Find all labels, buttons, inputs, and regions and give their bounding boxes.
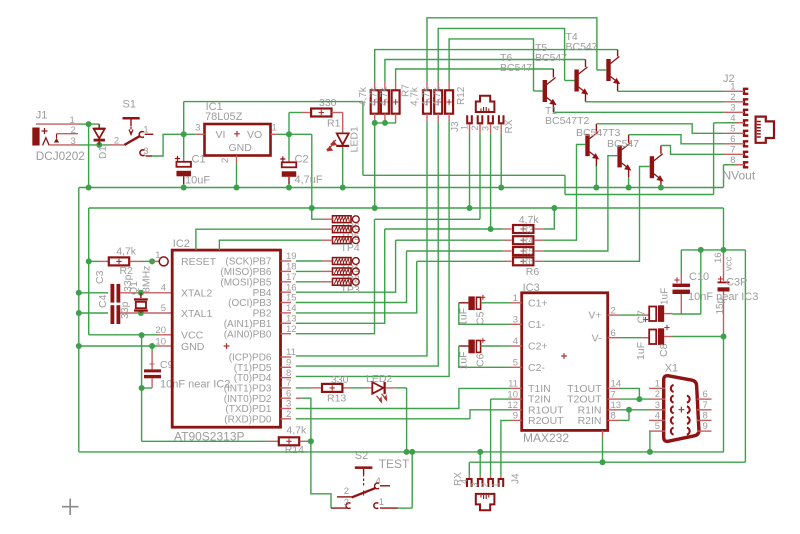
- svg-text:R14: R14: [285, 444, 304, 456]
- wire R1IN to X1 pin3: [619, 409, 649, 411]
- svg-text:1: 1: [379, 497, 384, 508]
- svg-text:(AIN1)PB1: (AIN1)PB1: [224, 319, 272, 330]
- wire C8 to right riser: [673, 336, 724, 338]
- junction dots group1: [372, 120, 378, 126]
- pullup resistor at x=395.6: [395, 81, 397, 90]
- wire TP6 feed from +5V rail: [312, 208, 322, 219]
- svg-text:8: 8: [611, 411, 616, 422]
- wire PB1 row13: [296, 229, 385, 323]
- svg-text:3: 3: [71, 136, 76, 147]
- svg-text:R1: R1: [327, 118, 341, 130]
- J4 pin 1 bracket: [499, 479, 504, 487]
- svg-text:LED2: LED2: [366, 373, 392, 385]
- svg-text:6: 6: [703, 389, 708, 400]
- wire PB7 to TP1: [296, 260, 322, 262]
- svg-text:4: 4: [655, 410, 660, 421]
- IC1 pin 1 stub: [271, 133, 279, 135]
- svg-text:78L05Z: 78L05Z: [205, 111, 243, 123]
- X1 pin 2: [649, 398, 665, 400]
- svg-text:XTAL2: XTAL2: [181, 288, 212, 300]
- IC3 MAX232 box: [522, 293, 608, 431]
- wire J3 pin4 to gnd rail: [500, 134, 502, 188]
- svg-text:BC547: BC547: [607, 138, 639, 150]
- svg-text:X1: X1: [665, 363, 678, 375]
- svg-text:2: 2: [71, 125, 76, 136]
- test point TP4: [333, 237, 352, 244]
- S2 pin2 line: [337, 496, 352, 498]
- wire LED1 to rail: [342, 147, 344, 188]
- svg-text:5: 5: [655, 421, 660, 432]
- svg-text:TP4: TP4: [341, 242, 360, 254]
- svg-text:10uF: 10uF: [185, 175, 210, 187]
- svg-text:(OCI)PB3: (OCI)PB3: [228, 298, 272, 309]
- wire T1b collector to J2 pin7: [661, 146, 724, 155]
- pullup resistor at x=374.7: [374, 81, 376, 90]
- wire C7 to V+ riser: [673, 313, 701, 315]
- capacitor C6: [468, 340, 474, 354]
- wire T2OUT to X1 pin2: [619, 398, 649, 400]
- svg-text:GND: GND: [229, 142, 253, 154]
- X1 pin 5: [649, 430, 665, 432]
- voltage regulator IC1 box: [205, 124, 271, 156]
- J2 pin 5: [744, 131, 748, 136]
- X1 pin 8: [697, 419, 712, 421]
- wire MAX232 GND pin15 drop: [602, 430, 604, 438]
- svg-text:2: 2: [470, 125, 480, 130]
- wire J3 pin2 down: [479, 134, 481, 220]
- junction dot R1IN: [626, 407, 632, 413]
- svg-text:6: 6: [730, 134, 735, 145]
- svg-text:RESET: RESET: [181, 256, 217, 268]
- svg-text:RX: RX: [504, 119, 515, 133]
- junction dot MAX GND: [600, 459, 606, 465]
- svg-text:1: 1: [513, 293, 518, 304]
- svg-text:2: 2: [344, 486, 349, 497]
- wire VCC feed: [89, 334, 158, 336]
- junction dot VO on +5V rail: [309, 205, 315, 211]
- J3 pin 4 bracket: [499, 115, 504, 123]
- svg-text:R6: R6: [526, 266, 540, 278]
- wire J3 pin1 to +5V rail: [469, 134, 471, 208]
- LED1: [342, 113, 344, 134]
- junction dot C1 top: [181, 131, 187, 137]
- IC3 pin C2-: [511, 366, 522, 368]
- wire GND pin line: [79, 345, 158, 347]
- J2 pin 8: [744, 162, 748, 167]
- wire PD0 row2 RXD: [296, 418, 470, 420]
- svg-text:2: 2: [655, 389, 660, 400]
- svg-text:10nF near IC2: 10nF near IC2: [160, 379, 230, 391]
- wire R1OUT jog: [470, 410, 511, 419]
- resistor R4: [503, 239, 512, 241]
- svg-text:16: 16: [713, 252, 724, 263]
- wire TP4 feed: [219, 240, 322, 250]
- wire J4 pin4 / MAX GND line y=462.2: [469, 461, 745, 463]
- wire PB0 row12 to J3p2 line: [296, 219, 375, 333]
- svg-text:C2: C2: [295, 154, 309, 166]
- svg-text:(MOSI)PB5: (MOSI)PB5: [220, 277, 272, 288]
- svg-text:TEST: TEST: [379, 457, 410, 471]
- J1 pin 3 line: [49, 144, 79, 146]
- svg-text:12: 12: [286, 324, 297, 335]
- T4 collector stub: [617, 50, 619, 57]
- svg-text:(MISO)PB6: (MISO)PB6: [220, 267, 272, 278]
- IC3 pin R1IN: [608, 409, 619, 411]
- X1 pin 7: [697, 409, 712, 411]
- junction dot on ground rail at x88.6: [86, 185, 92, 191]
- wire down x565: [564, 175, 566, 194]
- transistor T3: [617, 145, 621, 167]
- ground rail y=187.5: [79, 187, 724, 189]
- svg-text:3: 3: [655, 400, 660, 411]
- S2 pin4 contact: [375, 483, 379, 489]
- svg-text:4: 4: [513, 336, 518, 347]
- svg-text:C10: C10: [689, 271, 709, 283]
- junction dot C1 bottom rail: [181, 185, 187, 191]
- wire R3 left: [385, 228, 503, 230]
- wire R1 left: [289, 112, 302, 114]
- svg-text:4,7k: 4,7k: [358, 86, 369, 106]
- wire PB6 to TP2: [296, 270, 322, 272]
- junction dot 723.5: [721, 247, 727, 253]
- resistor R2 4.7k: [89, 260, 99, 262]
- wire T2IN to J4 pin2: [491, 398, 511, 400]
- capacitor C1: [183, 134, 185, 157]
- IC3 pin T2OUT: [608, 398, 619, 400]
- svg-text:XTAL1: XTAL1: [181, 308, 212, 320]
- junction dot S2 riser: [409, 449, 415, 455]
- svg-text:IC3: IC3: [523, 282, 540, 294]
- junction dot R14 right: [308, 438, 314, 444]
- svg-text:D1: D1: [98, 146, 109, 159]
- IC3 pin R2OUT: [511, 419, 522, 421]
- gnd distribution line y=451.9: [79, 451, 724, 453]
- junction dot IC1 GND rail: [234, 185, 240, 191]
- svg-text:C8: C8: [658, 343, 670, 357]
- wire C5 left loop: [459, 303, 511, 325]
- wire V+ riser: [700, 250, 702, 314]
- wire R14 to S2 pin3: [311, 441, 331, 508]
- svg-text:2: 2: [480, 482, 490, 487]
- switch S1 actuator: [123, 117, 140, 120]
- svg-text:2: 2: [286, 409, 291, 420]
- wire net VIN pin1 to diode: [79, 123, 99, 125]
- junction dot X1 pin5: [647, 449, 653, 455]
- wire IC1 GND to rail: [236, 163, 238, 188]
- svg-text:BC547T2: BC547T2: [545, 115, 590, 127]
- svg-text:3: 3: [143, 146, 148, 157]
- svg-text:R5: R5: [522, 246, 534, 256]
- wire J3 pin3 vertical: [490, 134, 492, 229]
- wire R4 left: [396, 239, 503, 241]
- wire J4 pin3 from gnd distribution: [479, 452, 481, 475]
- wire R4 right to T2 base: [544, 144, 586, 240]
- IC1 pin 3 stub: [195, 133, 205, 135]
- svg-text:20: 20: [155, 325, 166, 336]
- svg-text:C1-: C1-: [528, 319, 545, 331]
- J2 pin 4: [744, 120, 748, 125]
- resistor R6: [503, 260, 512, 262]
- svg-text:1uF: 1uF: [458, 351, 470, 369]
- J4 pin 3 bracket: [478, 479, 483, 487]
- X1 pin 9: [697, 430, 712, 432]
- wire VO net: [278, 133, 312, 135]
- wire X1 pin5 to gnd line: [649, 431, 651, 452]
- junction dot diode bottom: [96, 142, 102, 148]
- wire VCC vertical to R14 line: [141, 335, 143, 441]
- svg-text:PB2: PB2: [253, 309, 272, 320]
- wire J2p4 riser: [713, 123, 715, 195]
- resistor R1: [302, 112, 311, 114]
- svg-text:1: 1: [655, 378, 660, 389]
- +5V rail y=208: [89, 207, 724, 209]
- svg-text:3: 3: [344, 498, 349, 509]
- resistor R5: [503, 250, 512, 252]
- svg-text:C5: C5: [475, 311, 487, 325]
- S1 arm pin2: [109, 144, 124, 146]
- svg-text:4: 4: [459, 479, 469, 484]
- svg-text:2: 2: [114, 136, 119, 147]
- IC3 pin C1+: [511, 302, 522, 304]
- connector J3 jack symbol: [476, 96, 495, 112]
- svg-text:4: 4: [376, 476, 381, 487]
- svg-text:DCJ0202: DCJ0202: [36, 149, 85, 163]
- svg-text:J4: J4: [511, 473, 522, 484]
- svg-text:GND: GND: [181, 341, 205, 353]
- capacitor C3P: [723, 250, 725, 254]
- J2 pin4 stub to riser: [714, 122, 736, 124]
- svg-text:4,7k: 4,7k: [410, 86, 421, 106]
- wire PD5 row9: [296, 122, 438, 366]
- wire LED2 drop: [406, 388, 408, 452]
- svg-text:4,7k: 4,7k: [421, 86, 432, 106]
- wires group1 resistor tops to collector rails: [375, 50, 618, 81]
- J2 pin 7: [744, 152, 748, 157]
- J1 plug symbol detail: [42, 128, 48, 134]
- svg-text:MAX232: MAX232: [523, 431, 569, 445]
- wire y194.5 to J2 pin4 riser: [565, 194, 714, 196]
- svg-text:4,7k: 4,7k: [379, 86, 390, 106]
- J2 pin 3: [744, 110, 748, 115]
- J3 pin 2 bracket: [478, 115, 483, 123]
- svg-text:9: 9: [513, 411, 518, 422]
- wire R13 to LED2: [351, 387, 365, 389]
- svg-text:3: 3: [513, 315, 518, 326]
- J4 pin 4 bracket: [467, 479, 472, 487]
- svg-text:3: 3: [470, 482, 480, 487]
- svg-text:R12: R12: [456, 86, 467, 105]
- svg-text:4,7k: 4,7k: [432, 86, 443, 106]
- svg-text:9: 9: [703, 421, 708, 432]
- capacitor C5: [468, 296, 474, 310]
- svg-text:R2IN: R2IN: [578, 415, 602, 427]
- svg-text:7: 7: [730, 144, 735, 155]
- junction dot T3 emitter: [626, 185, 632, 191]
- svg-text:19: 19: [286, 251, 297, 262]
- wire R3 right pullup: [544, 208, 555, 229]
- T4 emitter wire: [617, 84, 619, 92]
- IC3 origin cross: [561, 353, 567, 359]
- svg-text:12: 12: [507, 400, 518, 411]
- junction dot LED2 drop: [404, 449, 410, 455]
- svg-text:R13: R13: [327, 393, 346, 405]
- J1 pin 1 line: [36, 123, 79, 125]
- svg-text:(RXD)PD0: (RXD)PD0: [224, 414, 272, 425]
- svg-text:15: 15: [286, 293, 297, 304]
- svg-text:330: 330: [331, 374, 349, 386]
- wires group2 resistor tops to base rails: [427, 18, 597, 81]
- S2 pin3 contact: [346, 503, 350, 509]
- resistor R3: [503, 228, 512, 230]
- svg-text:IC2: IC2: [173, 238, 190, 250]
- svg-text:3: 3: [730, 102, 735, 113]
- svg-text:BC547: BC547: [500, 62, 532, 74]
- wire C6 left loop: [459, 346, 511, 367]
- junction dot C2 bottom rail: [286, 185, 292, 191]
- capacitor C2: [288, 160, 290, 162]
- T6 base wire jog: [534, 90, 543, 92]
- S2 actuator: [355, 466, 373, 469]
- svg-text:6: 6: [611, 328, 616, 339]
- IC2 right pin stubs PD: [281, 356, 292, 358]
- svg-text:C7: C7: [636, 310, 648, 324]
- svg-text:330: 330: [319, 97, 337, 109]
- S2 pin1 line: [380, 507, 398, 509]
- base resistor at x=438.2: [437, 81, 439, 90]
- svg-text:V+: V+: [588, 310, 601, 322]
- wire J3 pin2 line y=219.3: [375, 218, 481, 220]
- +5V link line y=249.9: [681, 249, 745, 251]
- T1b collector stub: [660, 146, 662, 154]
- svg-text:14: 14: [286, 303, 297, 314]
- svg-text:5: 5: [513, 358, 518, 369]
- T3 emitter: [628, 170, 630, 177]
- junction dot C9 top: [149, 343, 155, 349]
- junction dot VCC line: [139, 332, 145, 338]
- svg-text:4: 4: [492, 125, 502, 130]
- T5 collector stub: [585, 60, 587, 68]
- junction dot RESET: [149, 258, 155, 264]
- svg-text:3: 3: [195, 123, 200, 134]
- resistor R14 4.7k: [267, 440, 278, 442]
- X1 pin 4: [649, 419, 665, 421]
- junction dot T1OUT/T2OUT/X1p2: [636, 396, 642, 402]
- svg-text:4: 4: [161, 282, 166, 293]
- LED2: [365, 387, 372, 389]
- junction dot 700.8: [698, 247, 704, 253]
- T5 emitter wire: [585, 94, 587, 102]
- wire J4 pin4 from gnd line: [468, 462, 470, 475]
- IC3 pin T2IN: [511, 398, 522, 400]
- svg-text:18: 18: [286, 262, 297, 273]
- X1 pin 1: [649, 387, 665, 389]
- svg-text:J1: J1: [36, 110, 48, 122]
- S2 arm: [352, 488, 376, 498]
- svg-text:1uF: 1uF: [635, 342, 647, 360]
- junction dot VIN: [86, 121, 92, 127]
- wire PB4 row16: [296, 240, 396, 292]
- junction dot VO-R1: [286, 131, 292, 137]
- svg-text:BC547: BC547: [535, 52, 567, 64]
- svg-text:4,7k: 4,7k: [286, 425, 307, 437]
- svg-text:C2-: C2-: [528, 362, 545, 374]
- J3 pin 3 bracket: [488, 115, 493, 123]
- wire R5 right to T3 base: [544, 156, 618, 251]
- junction dot LED1 rail: [340, 185, 346, 191]
- crystal Q1: [140, 293, 142, 298]
- svg-text:10nF near IC3: 10nF near IC3: [688, 291, 758, 303]
- T3 collector stub: [628, 135, 630, 143]
- T5 base wire jog: [565, 80, 575, 82]
- J2 pin 6: [744, 141, 748, 146]
- svg-text:C2+: C2+: [528, 341, 548, 353]
- test point TP3: [333, 278, 352, 285]
- J2 pin 2: [744, 99, 748, 104]
- svg-text:C1+: C1+: [528, 297, 548, 309]
- left ground rail x=78.8: [78, 188, 80, 452]
- wire R2OUT drop to J4 pin1: [501, 420, 511, 475]
- T2 emitter: [595, 159, 597, 166]
- svg-text:VCC: VCC: [181, 330, 204, 342]
- connector J4 jack symbol: [476, 494, 495, 510]
- svg-text:vcc: vcc: [724, 257, 735, 272]
- svg-text:V-: V-: [592, 332, 602, 344]
- svg-text:1: 1: [272, 123, 277, 134]
- S1 pin 1 contact: [139, 132, 144, 138]
- IC1 pin 2 GND stub: [236, 156, 238, 164]
- wire VIN down to ground rail: [88, 124, 90, 187]
- svg-text:10: 10: [155, 336, 166, 347]
- wire T4 emitter to J2 pin1: [618, 90, 724, 92]
- junction dot R3 pullup: [551, 205, 557, 211]
- svg-text:C3P: C3P: [726, 277, 747, 289]
- base resistor at x=427: [426, 81, 428, 90]
- wire J1 pin3 to S1: [79, 144, 109, 146]
- T1b emitter: [660, 181, 662, 188]
- junction dot C9 bottom: [139, 385, 145, 391]
- IC2 right pin stubs PB: [281, 260, 292, 262]
- wire R1IN tie to R2IN: [628, 410, 630, 421]
- transistor T6: [543, 80, 547, 102]
- J1 pin 2 line: [57, 133, 78, 135]
- svg-text:J2: J2: [723, 73, 735, 85]
- T4 base wire jog: [597, 69, 606, 71]
- connector J2 jack symbol: [756, 117, 774, 143]
- svg-text:1: 1: [155, 250, 160, 261]
- wire PD2 row6 to R14: [296, 397, 301, 399]
- X1 origin cross: [679, 407, 685, 413]
- svg-text:BC547: BC547: [566, 41, 598, 53]
- test point TP6: [333, 216, 352, 223]
- transistor T1 bottom right: [650, 156, 654, 178]
- wire T1OUT jog down: [619, 388, 639, 399]
- IC3 pin T1IN: [511, 387, 522, 389]
- junction dot J3p1: [467, 205, 473, 211]
- wire R6 left: [417, 260, 503, 262]
- wire C9 bottom jog: [142, 387, 153, 389]
- wire R1 riser and C2 riser: [288, 113, 290, 161]
- transistor T4: [606, 59, 610, 81]
- junction dot Q1 bottom: [138, 310, 144, 316]
- IC2 pin1 inversion bubble: [159, 257, 168, 266]
- frame cross mark: [62, 499, 79, 516]
- wire right loop riser x745.4: [744, 250, 746, 462]
- wire top rail down at x=362.9: [362, 102, 364, 176]
- test point TP1: [333, 258, 352, 265]
- IC3 pin R1OUT: [511, 409, 522, 411]
- X1 pin 6: [697, 398, 712, 400]
- svg-text:13: 13: [286, 314, 297, 325]
